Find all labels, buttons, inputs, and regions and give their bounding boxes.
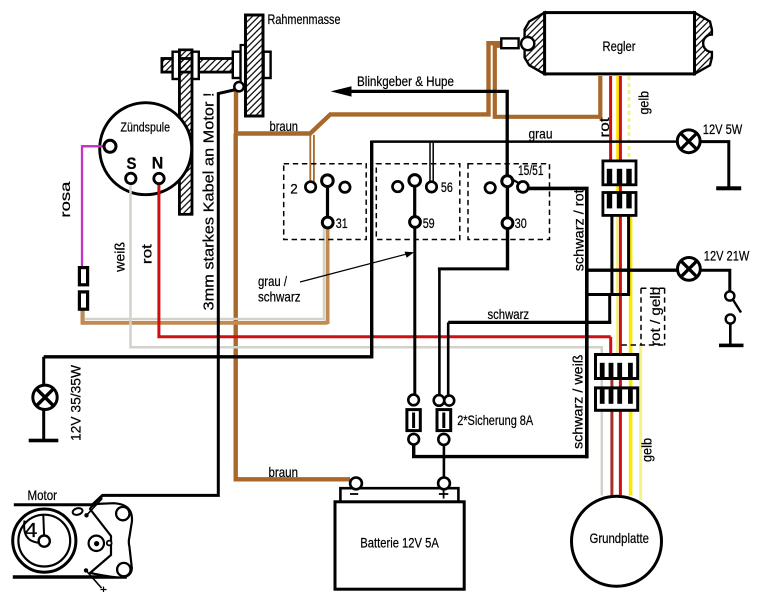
svg-text:12V 21W: 12V 21W [704, 247, 750, 263]
svg-text:Regler: Regler [603, 38, 636, 54]
svg-text:schwarz / weiß: schwarz / weiß [570, 355, 586, 450]
svg-text:2: 2 [290, 182, 298, 197]
svg-text:12V 5W: 12V 5W [703, 121, 743, 137]
svg-text:Blinkgeber & Hupe: Blinkgeber & Hupe [357, 73, 454, 89]
svg-text:Motor: Motor [28, 487, 58, 503]
svg-text:31: 31 [336, 216, 348, 231]
svg-text:schwarz: schwarz [258, 288, 301, 304]
svg-text:12V 35/35W: 12V 35/35W [68, 364, 84, 441]
svg-text:rot / gelb: rot / gelb [647, 287, 663, 346]
svg-text:schwarz / rot: schwarz / rot [571, 189, 587, 271]
svg-text:S: S [127, 154, 137, 173]
svg-text:30: 30 [515, 216, 527, 231]
svg-text:15/51: 15/51 [518, 163, 544, 178]
svg-text:59: 59 [423, 216, 435, 231]
svg-text:gelb: gelb [636, 91, 652, 115]
svg-text:schwarz: schwarz [488, 306, 530, 322]
svg-text:braun: braun [270, 118, 299, 134]
svg-text:N: N [152, 154, 164, 173]
svg-text:gelb: gelb [639, 438, 655, 462]
svg-text:Zündspule: Zündspule [121, 120, 171, 135]
svg-text:weiß: weiß [112, 242, 128, 273]
svg-text:4: 4 [25, 520, 38, 542]
svg-text:grau: grau [529, 126, 553, 142]
svg-text:grau /: grau / [258, 273, 287, 289]
svg-text:rot: rot [596, 117, 612, 137]
svg-text:2*Sicherung 8A: 2*Sicherung 8A [457, 412, 534, 428]
svg-text:Rahmenmasse: Rahmenmasse [268, 11, 341, 27]
svg-text:56: 56 [441, 180, 453, 195]
svg-text:Grundplatte: Grundplatte [590, 530, 650, 546]
svg-text:rot: rot [139, 244, 155, 264]
svg-text:rosa: rosa [57, 181, 73, 217]
svg-text:3mm starkes Kabel an Motor !: 3mm starkes Kabel an Motor ! [200, 93, 217, 311]
svg-text:braun: braun [269, 464, 299, 480]
svg-text:Batterie 12V 5A: Batterie 12V 5A [360, 534, 439, 550]
